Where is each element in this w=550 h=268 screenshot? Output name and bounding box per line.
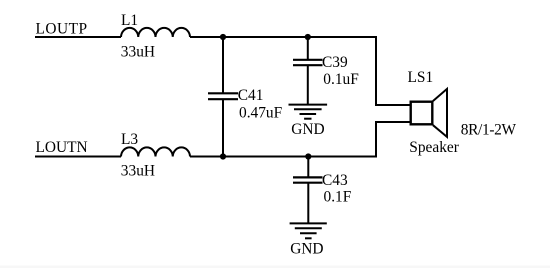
svg-text:LOUTP: LOUTP (36, 21, 88, 38)
svg-text:0.1F: 0.1F (324, 189, 352, 206)
svg-text:Speaker: Speaker (409, 139, 459, 156)
inductor L3 (121, 147, 190, 156)
bottom edge strip (0, 266, 550, 268)
ground (C43) (290, 223, 327, 238)
ground (C39) (289, 105, 328, 119)
wire (222, 100, 224, 158)
junction B (305, 34, 311, 40)
capacitor C43 (293, 177, 323, 182)
wire (375, 104, 411, 106)
wire (35, 36, 121, 38)
svg-text:LS1: LS1 (408, 69, 434, 86)
wire (307, 37, 309, 60)
wire (307, 183, 309, 223)
wire (222, 37, 224, 93)
wire (307, 66, 309, 105)
wire (375, 36, 377, 106)
wire (190, 156, 377, 158)
speaker LS1 (411, 102, 433, 125)
svg-text:L3: L3 (121, 131, 138, 148)
wire (190, 36, 377, 38)
svg-text:C39: C39 (322, 54, 348, 71)
junction C (220, 153, 226, 159)
svg-text:33uH: 33uH (121, 163, 155, 180)
wire (307, 157, 309, 178)
svg-text:LOUTN: LOUTN (36, 139, 88, 156)
junction A (220, 34, 226, 40)
inductor L1 (121, 28, 190, 37)
junction D (305, 153, 311, 159)
speaker horn (433, 89, 447, 137)
svg-text:GND: GND (291, 121, 324, 138)
wire (375, 121, 377, 158)
capacitor C41 (208, 93, 238, 99)
wire (375, 121, 411, 123)
capacitor C39 (293, 60, 323, 65)
svg-text:0.1uF: 0.1uF (323, 71, 359, 88)
svg-text:L1: L1 (121, 12, 138, 29)
svg-text:8R/1-2W: 8R/1-2W (461, 122, 517, 139)
svg-text:C43: C43 (322, 172, 348, 189)
svg-text:0.47uF: 0.47uF (239, 104, 282, 121)
svg-text:33uH: 33uH (121, 43, 155, 60)
svg-text:GND: GND (290, 241, 323, 258)
svg-text:C41: C41 (238, 87, 264, 104)
wire (35, 156, 121, 158)
